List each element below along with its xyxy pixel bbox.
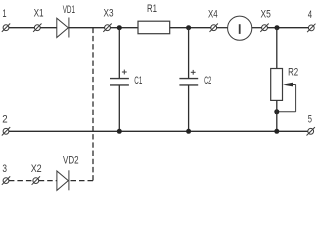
wire R1 to X4 bbox=[170, 27, 211, 29]
ammeter I bbox=[228, 16, 252, 40]
wire C1 upper bbox=[118, 28, 120, 79]
wire C1 lower bbox=[118, 85, 120, 131]
potentiometer R2 bbox=[271, 66, 298, 112]
svg-text:4: 4 bbox=[308, 9, 312, 22]
junction R2 wiper bbox=[274, 109, 279, 114]
junction node C1 top bbox=[117, 25, 122, 30]
wire R2 lower bbox=[276, 100, 278, 131]
diode VD1 bbox=[57, 3, 75, 37]
resistor R1 bbox=[138, 3, 170, 34]
connector X5 bbox=[260, 9, 271, 32]
diode VD2 bbox=[57, 154, 79, 190]
connector X3 bbox=[103, 8, 113, 32]
wire bottom rail bbox=[9, 130, 308, 132]
wire term3 to X2 dashed bbox=[9, 180, 33, 182]
terminal 3 bbox=[2, 163, 10, 185]
svg-text:VD2: VD2 bbox=[63, 154, 79, 167]
svg-text:3: 3 bbox=[2, 163, 7, 175]
connector X2 bbox=[31, 163, 42, 185]
junction C2 bottom bbox=[186, 129, 191, 134]
wire X2 to VD2 dashed bbox=[39, 180, 57, 182]
svg-text:X5: X5 bbox=[261, 9, 272, 21]
junction node C2 top bbox=[186, 25, 191, 30]
wire C2 lower bbox=[188, 85, 190, 131]
terminal 1 bbox=[2, 6, 10, 32]
wire X4 to ammeter bbox=[217, 27, 228, 29]
capacitor C1 bbox=[110, 70, 142, 87]
svg-text:X2: X2 bbox=[31, 163, 42, 175]
wire X5 to terminal 4 bbox=[267, 27, 308, 29]
connector X1 bbox=[33, 8, 44, 32]
junction C1 bottom bbox=[117, 129, 122, 134]
wire term1 to X1 bbox=[9, 27, 35, 29]
svg-text:1: 1 bbox=[2, 6, 6, 19]
svg-text:X4: X4 bbox=[208, 8, 218, 21]
connector X4 bbox=[208, 8, 218, 32]
svg-text:C1: C1 bbox=[134, 74, 142, 86]
wire R2 upper bbox=[276, 28, 278, 69]
svg-text:R1: R1 bbox=[147, 3, 157, 16]
wire ammeter to X5 bbox=[252, 27, 262, 29]
wire C2 upper bbox=[188, 28, 190, 79]
svg-text:X3: X3 bbox=[104, 8, 114, 20]
terminal 4 bbox=[307, 9, 315, 33]
capacitor C2 bbox=[179, 70, 211, 87]
svg-text:R2: R2 bbox=[288, 66, 298, 79]
junction node R2 top bbox=[275, 25, 280, 30]
wire X1 to VD1 bbox=[40, 27, 57, 29]
wire X3 to R1 bbox=[110, 27, 138, 29]
terminal 5 bbox=[307, 112, 315, 135]
svg-text:5: 5 bbox=[308, 112, 312, 125]
terminal 2 bbox=[2, 114, 10, 136]
wire VD1 to X3 bbox=[69, 27, 105, 29]
svg-text:2: 2 bbox=[2, 114, 8, 126]
wire VD2 to corner dashed bbox=[69, 180, 93, 182]
svg-text:VD1: VD1 bbox=[63, 3, 75, 15]
svg-text:X1: X1 bbox=[34, 8, 44, 20]
junction R2 bottom bbox=[274, 129, 279, 134]
wire dashed vertical VD2 branch to top rail bbox=[92, 28, 94, 181]
svg-text:C2: C2 bbox=[204, 74, 211, 87]
